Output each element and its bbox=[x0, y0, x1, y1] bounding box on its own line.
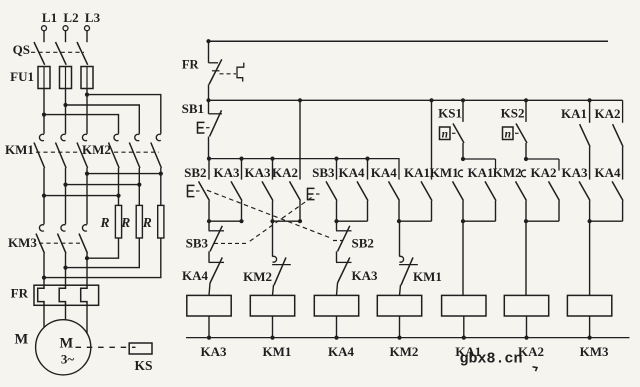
node L2 supply terminal bbox=[63, 10, 79, 42]
svg-text:FR: FR bbox=[182, 58, 200, 72]
wire resistor R3 bottom to phase lead bbox=[42, 238, 161, 280]
label KA3 (branch 3) bbox=[352, 268, 379, 283]
label KA2 (coil) bbox=[518, 344, 544, 359]
relay contact KA2 (row c12) bbox=[549, 181, 560, 221]
label SB3 (branch 1) bbox=[186, 236, 209, 251]
svg-text:FR: FR bbox=[11, 286, 29, 301]
svg-text:SB1: SB1 bbox=[182, 101, 204, 116]
wire pair join 272.5-300.0 bbox=[270, 219, 300, 223]
svg-text:KA1: KA1 bbox=[468, 165, 494, 180]
label KA1 (coil) bbox=[455, 344, 481, 359]
svg-text:SB2: SB2 bbox=[352, 236, 374, 251]
thermal relay FR heater elements bbox=[34, 285, 99, 305]
label KM1 bbox=[5, 142, 34, 157]
wire tap phase 1 to KM2 bbox=[44, 115, 119, 134]
svg-text:KA4: KA4 bbox=[328, 344, 355, 359]
wire phase 3 KM1 to KM3 bbox=[85, 168, 89, 224]
coil KM3 bbox=[567, 295, 611, 339]
wire sub-rail KS1 bbox=[461, 157, 496, 171]
wire phase 2 fuse to KM1 bbox=[63, 89, 67, 134]
wire motor lead 2 bbox=[65, 305, 67, 320]
fuse FU1 pole 1 bbox=[38, 67, 50, 89]
wire tap phase 2 to KM2 bbox=[66, 105, 140, 134]
label FR (control) bbox=[182, 58, 200, 72]
switch QS pole 3 bbox=[77, 42, 88, 65]
label SB2 (branch 3) bbox=[352, 236, 374, 251]
label FR (power) bbox=[11, 286, 29, 301]
coil KA1 bbox=[442, 295, 486, 339]
svg-text:KM2: KM2 bbox=[390, 344, 419, 359]
thermal relay FR NC contact bbox=[209, 41, 222, 100]
resistor R1 bbox=[99, 205, 121, 238]
coil KA3 bbox=[187, 295, 231, 339]
SB1 actuator E bbox=[198, 122, 212, 133]
svg-text:KM2: KM2 bbox=[243, 269, 272, 284]
svg-text:R: R bbox=[99, 215, 109, 230]
contactor KM3 contact 2 bbox=[58, 225, 67, 286]
svg-text:M: M bbox=[15, 332, 29, 348]
wire tap phase 3 to KM2 bbox=[87, 95, 161, 134]
wire KM2 pole 2 to resistor bbox=[137, 168, 141, 205]
resistor R3 bbox=[142, 205, 164, 238]
SB2 actuator E bbox=[188, 185, 202, 196]
wire branch 6 join to coil bbox=[525, 221, 527, 295]
relay contact KA4 (row c14) bbox=[612, 181, 623, 221]
contactor KM2 main contact 3 bbox=[151, 134, 162, 168]
wire pair join 336.5-367.5 bbox=[334, 219, 367, 223]
label KA2 (row c12) bbox=[531, 165, 557, 180]
svg-text:KM1: KM1 bbox=[5, 142, 34, 157]
wire pair join 209.0-241.5 bbox=[207, 219, 242, 223]
speed switch KS1 contact bbox=[453, 98, 465, 159]
svg-text:KA1: KA1 bbox=[561, 106, 587, 121]
relay contact KA4 (row c6) bbox=[357, 159, 368, 222]
wire pair join 526.0-559.0 bbox=[524, 219, 559, 223]
svg-text:L2: L2 bbox=[63, 10, 78, 25]
wire pair join 589.6-622.6 bbox=[588, 219, 623, 223]
svg-text:KA4: KA4 bbox=[595, 165, 622, 180]
label KA4 (coil) bbox=[328, 344, 355, 359]
wire second rail bbox=[206, 98, 622, 102]
label KM2 bbox=[82, 142, 111, 157]
svg-text:3~: 3~ bbox=[61, 351, 75, 366]
pushbutton SB3 (NO) contact bbox=[326, 159, 337, 222]
fuse FU1 pole 2 bbox=[60, 67, 72, 89]
contactor KM2 main contact 1 bbox=[109, 134, 120, 168]
node L1 supply terminal bbox=[42, 10, 58, 42]
svg-text:KM1: KM1 bbox=[430, 165, 459, 180]
wire rail segment A bbox=[207, 157, 399, 180]
svg-text:SB3: SB3 bbox=[312, 165, 335, 180]
motor M 3~ bbox=[36, 320, 91, 375]
svg-text:KA3: KA3 bbox=[245, 165, 272, 180]
dashed link motor to KS bbox=[76, 346, 136, 348]
wire KM2 pole 1 to resistor bbox=[116, 168, 120, 205]
contactor KM2 aux contact (row c11) bbox=[516, 170, 527, 221]
svg-text:KA2: KA2 bbox=[595, 106, 621, 121]
svg-text:KA4: KA4 bbox=[339, 165, 366, 180]
svg-text:KM3: KM3 bbox=[580, 344, 609, 359]
label KA4 (branch 1) bbox=[182, 268, 209, 283]
svg-text:KS1: KS1 bbox=[438, 106, 462, 121]
label SB3 (row c5) bbox=[312, 165, 335, 180]
label KM2 (row c11) bbox=[493, 165, 522, 180]
svg-text:KM3: KM3 bbox=[8, 235, 37, 250]
wire resistor R1 bottom to phase lead bbox=[85, 238, 119, 260]
label M (motor) bbox=[15, 332, 29, 348]
svg-text:KS: KS bbox=[134, 358, 152, 373]
pushbutton SB1 (NC) bbox=[209, 100, 223, 158]
relay contact KA3 (row c13) bbox=[579, 181, 590, 221]
svg-text:L3: L3 bbox=[85, 10, 101, 25]
svg-text:KA4: KA4 bbox=[371, 165, 398, 180]
label KS1 bbox=[438, 106, 462, 121]
svg-text:SB2: SB2 bbox=[184, 165, 206, 180]
label FU1 bbox=[10, 69, 34, 84]
speed switch KS2 contact bbox=[516, 98, 528, 159]
extra join dot bbox=[239, 219, 302, 223]
wire motor lead 1 bbox=[43, 305, 45, 327]
contactor NC contact KM1 (branch 4) bbox=[399, 221, 418, 295]
resistor R2 bbox=[120, 205, 142, 238]
svg-text:KM1: KM1 bbox=[263, 344, 292, 359]
svg-text:n: n bbox=[505, 128, 511, 140]
wire sub-rail KS2 bbox=[524, 157, 559, 171]
label KM1 (branch 4) bbox=[413, 269, 442, 284]
label KS bbox=[134, 358, 152, 373]
relay contact KA4 (row c7) bbox=[389, 181, 400, 221]
contactor KM2 main contact 2 bbox=[129, 134, 140, 168]
label KA1 (row c10) bbox=[468, 165, 494, 180]
node L3 supply terminal bbox=[85, 10, 101, 42]
wire phase 1 fuse to KM1 bbox=[42, 89, 46, 134]
QS linkage dashed line bbox=[31, 51, 84, 53]
label KA3 (row c2) bbox=[214, 165, 241, 180]
KS1 speed actuator n-box bbox=[440, 127, 458, 140]
svg-text:KA2: KA2 bbox=[272, 165, 298, 180]
FR trip actuator symbol bbox=[237, 63, 244, 82]
label KM1 (row c9) bbox=[430, 165, 459, 180]
relay contact KA1 (row c8) bbox=[421, 98, 434, 221]
FR trip linkage dashes bbox=[220, 73, 237, 75]
svg-text:KM2: KM2 bbox=[82, 142, 111, 157]
pushbutton SB2 (NO) contact bbox=[199, 159, 210, 222]
relay contact KA3 (row 3rd) bbox=[262, 159, 273, 222]
wire join KM1-KM2 phase 3 bbox=[87, 173, 161, 175]
contactor KM1 main contact 1 bbox=[34, 134, 45, 168]
svg-text:KA3: KA3 bbox=[201, 344, 228, 359]
wire KM2 pole 3 to resistor bbox=[159, 168, 163, 205]
wire phase 3 fuse to KM1 bbox=[85, 89, 89, 134]
svg-text:KA3: KA3 bbox=[562, 165, 589, 180]
switch QS pole 1 bbox=[34, 42, 45, 65]
KM3 linkage dashed line bbox=[39, 242, 80, 244]
label KA1 (upper right) bbox=[561, 106, 587, 121]
label KA4 (row c14) bbox=[595, 165, 622, 180]
switch QS pole 2 bbox=[56, 42, 67, 65]
KS2 speed actuator n-box bbox=[503, 127, 521, 140]
label KA4 (row c6) bbox=[339, 165, 366, 180]
coil KM2 bbox=[377, 295, 421, 339]
watermark gbx8.cn bbox=[460, 351, 538, 372]
label KM1 (coil) bbox=[263, 344, 292, 359]
KM1-KM2 linkage dashed line bbox=[36, 151, 159, 153]
label KA2 (row c4) bbox=[272, 165, 298, 180]
label KA3 (row c3) bbox=[245, 165, 272, 180]
label KS2 bbox=[501, 106, 525, 121]
contactor KM1 main contact 2 bbox=[56, 134, 67, 168]
wire phase 1 KM1 to KM3 bbox=[42, 168, 46, 224]
contactor KM1 main contact 3 bbox=[77, 134, 88, 168]
wire motor lead 3 bbox=[86, 305, 88, 333]
relay NC contact KA4 (branch 1) bbox=[209, 251, 225, 295]
svg-text:QS: QS bbox=[13, 42, 30, 57]
label KM2 (coil) bbox=[390, 344, 419, 359]
label KM3 bbox=[8, 235, 37, 250]
wire branch 7 join to coil bbox=[589, 221, 591, 295]
relay contact KA2 (upper right) bbox=[613, 100, 624, 179]
wire branch 5 join to coil bbox=[462, 221, 464, 295]
label KM2 (branch 2) bbox=[243, 269, 272, 284]
svg-text:KS2: KS2 bbox=[501, 106, 525, 121]
contactor KM3 contact 3 bbox=[79, 225, 88, 286]
relay contact KA2 (row c4) bbox=[290, 98, 303, 221]
label KA3 (coil) bbox=[201, 344, 228, 359]
coil KA2 bbox=[504, 295, 548, 339]
svg-text:R: R bbox=[142, 215, 152, 230]
wire join KM1-KM2 phase 1 bbox=[44, 195, 119, 197]
wire top rail L11 bbox=[206, 39, 608, 43]
coil KA4 bbox=[314, 295, 358, 339]
label KA2 (upper right) bbox=[595, 106, 621, 121]
svg-text:n: n bbox=[442, 128, 448, 140]
svg-text:KA3: KA3 bbox=[214, 165, 241, 180]
svg-text:KM1: KM1 bbox=[413, 269, 442, 284]
wire pair join 463.0-495.5 bbox=[461, 219, 496, 223]
wire phase 2 KM1 to KM3 bbox=[63, 168, 67, 224]
contactor KM1 aux contact (row c9) bbox=[453, 170, 464, 221]
coil KM1 bbox=[250, 295, 294, 339]
label SB1 bbox=[182, 101, 204, 116]
svg-text:R: R bbox=[120, 215, 130, 230]
svg-text:KA1: KA1 bbox=[404, 165, 430, 180]
mechanical link SB3 dashed diagonal bbox=[214, 198, 312, 244]
svg-text:L1: L1 bbox=[42, 10, 57, 25]
label SB2 (row) bbox=[184, 165, 206, 180]
SB3 actuator E bbox=[308, 188, 322, 199]
svg-text:KA3: KA3 bbox=[352, 268, 379, 283]
label QS bbox=[13, 42, 30, 57]
relay contact KA1 (upper right) bbox=[580, 98, 592, 179]
relay NC contact KA3 (branch 3) bbox=[336, 251, 352, 295]
svg-text:KA2: KA2 bbox=[531, 165, 557, 180]
relay contact KA3 (row 2nd) bbox=[231, 159, 242, 222]
wire join KM1-KM2 phase 2 bbox=[66, 184, 140, 186]
pushbutton SB2 NC contact (branch 3) bbox=[336, 221, 352, 251]
label KA4 (row c7) bbox=[371, 165, 398, 180]
svg-text:FU1: FU1 bbox=[10, 69, 34, 84]
contactor KM3 contact 1 bbox=[36, 225, 45, 286]
contactor NC contact KM2 (branch 2) bbox=[272, 221, 291, 295]
speed relay KS box bbox=[129, 343, 152, 354]
svg-text:SB3: SB3 bbox=[186, 236, 209, 251]
relay contact KA1 (row c10) bbox=[485, 181, 496, 221]
pushbutton SB3 NC contact (branch 1) bbox=[209, 221, 225, 251]
wire resistor R2 bottom to phase lead bbox=[63, 238, 139, 270]
wire pair join 399.0-431.5 bbox=[397, 219, 432, 223]
svg-text:KA4: KA4 bbox=[182, 268, 209, 283]
svg-text:gbx8.cn: gbx8.cn bbox=[460, 351, 523, 368]
wire bottom rail bbox=[186, 337, 630, 339]
svg-text:KM2: KM2 bbox=[493, 165, 522, 180]
svg-text:M: M bbox=[59, 336, 73, 352]
label KM3 (coil) bbox=[580, 344, 609, 359]
fuse FU1 pole 3 bbox=[81, 67, 93, 89]
label KA3 (row c13) bbox=[562, 165, 589, 180]
label KA1 (row c8) bbox=[404, 165, 430, 180]
mechanical link SB2 dashed diagonal bbox=[207, 190, 342, 240]
